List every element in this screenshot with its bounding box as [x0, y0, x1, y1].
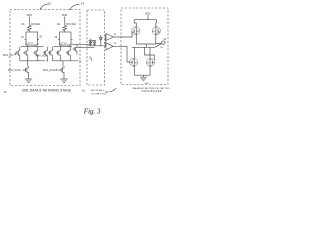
PFET drain rail — [136, 43, 156, 45]
svg-text:10: 10 — [48, 2, 52, 6]
wires latch box 1 to diff pair rail — [21, 45, 44, 47]
svg-text:BALANCED RECTFR FOR THE TWO: BALANCED RECTFR FOR THE TWO — [133, 87, 170, 90]
transistor Q9 (cell 2 right FET) — [73, 44, 77, 54]
NFET source rail — [134, 74, 150, 76]
second stage top rail — [132, 46, 155, 48]
wire VDD down (buffer) — [147, 15, 149, 20]
transistor Q2 (cell 1 pair FET a) — [23, 47, 28, 61]
svg-text:VDD: VDD — [145, 11, 151, 15]
transistor Q14 (NFET right, circled) — [147, 47, 155, 75]
svg-text:CMOS BUFFER: CMOS BUFFER — [142, 91, 162, 93]
lead line to numeral 14 — [69, 2, 84, 11]
latch box 28 side pins — [58, 39, 72, 41]
diode D3 on right branch — [96, 35, 106, 46]
transistor Q12 (PFET right, circled) — [152, 23, 160, 44]
svg-text:VDD: VDD — [62, 13, 68, 17]
transistor Q3 (cell 1 pair FET b) — [33, 47, 38, 61]
svg-text:MXA_ACLKB: MXA_ACLKB — [43, 69, 58, 72]
wire VDD down (cell 2) — [64, 17, 66, 26]
transistor Q1 (cell 1 input FET) — [15, 47, 20, 61]
transistor Q7 (cell 2 pair FET a) — [56, 47, 61, 61]
svg-text:20: 20 — [105, 90, 108, 94]
source join rail (cell 2) — [52, 61, 78, 66]
transistor Q4 (cell 1 right FET) — [43, 47, 48, 61]
transistor Q6 (cell 2 input FET) — [48, 47, 53, 61]
transistor Q8 (cell 2 pair FET b) — [66, 47, 71, 61]
wire second rail to output — [155, 44, 162, 48]
wire input to Q1 gate — [14, 53, 16, 55]
diode D2 — [93, 41, 96, 46]
buffer amp 36 — [106, 34, 113, 41]
svg-text:CML DATA & RETIMING STAGE: CML DATA & RETIMING STAGE — [22, 88, 71, 92]
wire clk label to tail gate (cell 1) — [22, 69, 23, 71]
latch box 24 side pins — [25, 39, 39, 41]
NFET gate cross wire — [145, 47, 155, 60]
wire VDD down (cell 1) — [28, 17, 30, 26]
tail transistor Q10 (cell 2) — [59, 66, 64, 79]
tail transistor Q5 (cell 1) — [24, 66, 29, 79]
ground (buffer) — [140, 77, 147, 81]
wire amp 38 output — [113, 46, 130, 62]
svg-text:12: 12 — [4, 90, 7, 94]
lead line to numeral 20 — [110, 88, 117, 92]
interstage wire upper (latch2 out to follower) — [72, 41, 90, 45]
resistor R1 (cell 1) — [27, 25, 31, 32]
latch box 24 (cell 1) — [26, 32, 38, 45]
svg-text:SRC FLWR &: SRC FLWR & — [91, 90, 105, 92]
svg-text:RQ=4kΩ: RQ=4kΩ — [67, 23, 77, 26]
stage box: CML data retiming stage (left dashed box) — [10, 10, 80, 86]
cross wire from P drain rail down — [146, 44, 148, 47]
follower bottom rail — [89, 45, 97, 47]
buffer amp 38 — [106, 43, 113, 50]
svg-text:VSS: VSS — [144, 83, 149, 85]
transistor Q11 (PFET left, circled) — [132, 23, 140, 44]
svg-text:RQ=4kΩ: RQ=4kΩ — [31, 23, 41, 26]
buffer top rail — [134, 20, 156, 23]
svg-text:Q1 Q2: Q1 Q2 — [27, 43, 34, 45]
wires latch box 2 to diff pair rail — [54, 45, 73, 47]
svg-text:MXA_AD: MXA_AD — [3, 54, 13, 57]
ground (cell 2) — [60, 79, 67, 83]
svg-text:16: 16 — [82, 88, 85, 92]
source join rail (cell 1) — [20, 61, 45, 66]
stage box: CMOS buffer stage (right dashed box) — [121, 8, 168, 85]
diode D1 — [89, 41, 92, 46]
wire amp 36 output to P gate — [113, 32, 132, 37]
svg-text:Fig. 3: Fig. 3 — [83, 107, 101, 115]
svg-text:VDD: VDD — [26, 13, 32, 17]
lead line to numeral 10 — [40, 2, 52, 10]
svg-text:LVL SHFT STG: LVL SHFT STG — [91, 94, 106, 96]
interstage wire lower (latch2 out to follower) — [77, 46, 95, 48]
latch box 28 (cell 2) — [60, 32, 72, 45]
wire to ground (buffer) — [143, 75, 145, 77]
svg-text:Q3 Q4: Q3 Q4 — [61, 43, 68, 45]
svg-text:MXA_ACLK: MXA_ACLK — [8, 69, 21, 72]
output terminal circle — [162, 41, 165, 44]
wire clk label to tail gate (cell 2) — [58, 69, 59, 71]
svg-text:MXA_ADB: MXA_ADB — [36, 55, 48, 58]
resistor R2 (cell 2) — [63, 25, 67, 32]
stage box: follower/level-shift stage (middle dashed box) — [87, 10, 105, 85]
svg-text:14: 14 — [81, 2, 85, 6]
follower top rail — [89, 40, 97, 42]
transistor Q13 (NFET left, circled) — [130, 47, 138, 75]
ground (cell 1) — [25, 79, 32, 83]
buffer input tie wire — [105, 35, 107, 48]
